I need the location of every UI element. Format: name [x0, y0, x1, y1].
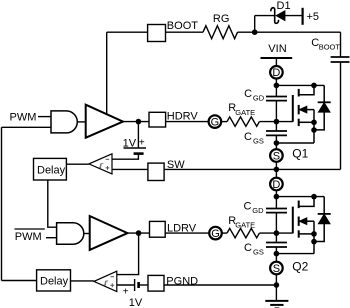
wire PWM-bar input stub: [46, 237, 57, 239]
pin circle D (Q1 drain): [270, 66, 283, 79]
wire D circle to drain node: [275, 79, 277, 85]
transistor Q1 gate bar: [292, 95, 294, 122]
pin circle G (Q2 gate): [209, 227, 222, 240]
wire comparator plus input to SW: [112, 168, 148, 170]
wire comparator plus input to battery: [117, 284, 135, 286]
body diode Q2 branch lower: [314, 224, 324, 242]
wire AND1 output to driver: [77, 121, 85, 123]
wire Delay1 to AND2: [48, 180, 57, 227]
wire Delay2 output to left rail: [2, 280, 37, 282]
node Q2 drain stub junction: [311, 194, 317, 200]
comparator (low-side) minus sign: [110, 276, 114, 278]
node Q1 source stub junction: [311, 120, 317, 126]
body diode Q1 branch upper: [323, 85, 325, 102]
wire RGATE to Q1 gate: [259, 121, 292, 123]
node Q2 drain: [274, 194, 280, 200]
diode D1 (schottky, cathode bar): [271, 8, 279, 24]
body diode Q2 branch upper: [323, 197, 325, 214]
svg-text:+: +: [123, 286, 129, 297]
svg-text:GATE: GATE: [235, 221, 255, 230]
body diode Q2 triangle: [319, 215, 330, 224]
buffer driver (low-side): [90, 216, 128, 250]
resistor RGATE (Q1): [227, 117, 259, 126]
wire Q1 gate node to CGS: [275, 122, 277, 131]
node Q1 drain stub junction: [311, 83, 317, 89]
overline for PWM-bar: [15, 228, 45, 230]
body diode Q1 cathode bar: [318, 101, 331, 103]
node Q2 source stub junction: [311, 231, 317, 237]
wire battery to comparator inverting input: [112, 154, 138, 160]
node PGND: [274, 282, 280, 288]
buffer driver (high-side): [86, 105, 123, 138]
transistor Q1 channel segments: [298, 89, 300, 97]
node bootstrap (RG / D1 / CBOOT junction): [252, 29, 258, 35]
body diode Q1 branch lower: [314, 112, 324, 130]
comparator (high-side) hysteresis glyph: [99, 164, 104, 168]
svg-text:+5: +5: [307, 11, 320, 23]
wire HDRV node to battery: [137, 122, 139, 148]
resistor RG: [203, 26, 238, 39]
wire SW rail: [164, 168, 340, 170]
svg-text:GS: GS: [253, 136, 264, 145]
wire CGS to Q1 source node: [275, 135, 277, 143]
wire CGD to Q2 gate node: [275, 213, 277, 234]
wire PGND rail: [164, 284, 276, 286]
svg-text:C: C: [244, 88, 252, 100]
capacitor CGD (Q1): [266, 96, 287, 98]
pin circle D (Q2 drain): [270, 178, 283, 191]
wire right rail upper (to CBOOT): [340, 32, 342, 57]
wire RGATE to Q2 gate: [259, 232, 292, 234]
wire Q1 drain rail: [276, 84, 324, 86]
wire left rail: [1, 127, 3, 280]
comparator (low-side) hysteresis glyph: [104, 281, 109, 285]
wire D1 anode to +5: [285, 15, 303, 17]
transistor Q2 gate bar: [292, 207, 294, 234]
wire LDRV box to gate circle: [165, 232, 209, 234]
body diode Q1 triangle: [319, 103, 330, 112]
wire battery to PGND box: [139, 284, 148, 286]
svg-text:BOOT: BOOT: [319, 42, 341, 51]
pin box BOOT: [148, 25, 166, 42]
transistor Q2 drain stub: [299, 197, 314, 207]
node HDRV (driver output): [123, 121, 149, 123]
svg-text:GD: GD: [253, 93, 265, 102]
pin box PGND: [148, 275, 164, 291]
wire Q2 drain rail: [276, 196, 324, 198]
and-gate U1 (high-side): [51, 111, 77, 133]
wire RG to bootstrap node: [238, 31, 255, 33]
node SW: [274, 167, 280, 173]
svg-text:GS: GS: [253, 247, 264, 256]
transistor Q2 body arrow: [306, 220, 315, 222]
svg-text:G: G: [211, 117, 220, 129]
svg-text:HDRV: HDRV: [167, 111, 199, 123]
node Q1 source (CGS bottom): [274, 140, 280, 146]
svg-text:PWM: PWM: [15, 231, 42, 243]
pin circle G (Q1 gate): [209, 115, 222, 128]
transistor Q1 body arrow: [306, 109, 315, 111]
capacitor CGS (Q1): [266, 130, 287, 132]
wire D circle to Q2 drain node: [275, 191, 277, 197]
node LDRV (driver output): [128, 232, 150, 234]
pin circle S (Q1 source): [275, 143, 277, 149]
svg-text:Q1: Q1: [292, 147, 308, 161]
svg-text:D1: D1: [277, 0, 291, 12]
svg-text:C: C: [244, 201, 252, 213]
pin circle S (Q2 source): [275, 254, 277, 262]
wire D1 branch riser: [254, 16, 256, 33]
node Q2 gate: [274, 230, 280, 236]
node Q1 gate: [274, 119, 280, 125]
wire comparator output to Delay2: [71, 280, 94, 282]
wire Q1 drain to CGD: [275, 85, 277, 96]
svg-text:VIN: VIN: [268, 43, 286, 55]
wire CGS to Q2 source node: [275, 247, 277, 254]
and-gate U2 (low-side): [57, 223, 84, 244]
resistor RGATE (Q2): [227, 228, 259, 237]
wire Q2 source to PGND rail: [275, 274, 277, 285]
body diode Q2 cathode bar: [318, 213, 331, 215]
wire BOOT feed horizontal (top rail left): [107, 31, 148, 33]
wire right rail lower (CBOOT to SW): [340, 62, 342, 169]
svg-text:GATE: GATE: [235, 108, 255, 117]
battery 1V (low-side) plates: [134, 279, 136, 291]
supply VIN bar: [261, 57, 293, 59]
wire CGD to Q1 gate node: [275, 101, 277, 122]
delay block 2: [37, 270, 71, 291]
transistor Q2 channel segments: [298, 201, 300, 209]
wire Q2 body-source vertical: [313, 221, 315, 253]
svg-text:GD: GD: [252, 206, 264, 215]
comparator (high-side): [89, 154, 112, 174]
svg-text:S: S: [273, 263, 280, 275]
pin box SW: [148, 163, 164, 180]
wire PWM input stub: [38, 116, 51, 118]
svg-text:PWM: PWM: [10, 112, 37, 124]
svg-text:C: C: [244, 242, 252, 254]
svg-text:D: D: [272, 67, 280, 79]
node Q1 drain: [274, 83, 280, 89]
ground: [265, 300, 288, 302]
wire VIN to D circle: [275, 58, 277, 66]
wire Q2 source rail: [276, 253, 314, 255]
wire left rail to AND1 input: [2, 126, 52, 128]
svg-text:BOOT: BOOT: [167, 20, 198, 32]
comparator (high-side) plus sign: [106, 166, 110, 170]
svg-text:Q2: Q2: [292, 259, 308, 273]
node Q2 body diode bottom junction: [311, 239, 317, 245]
wire BOOT feed vertical: [106, 32, 108, 114]
delay block 1: [34, 158, 67, 180]
wire Q1 body-source vertical: [313, 110, 315, 143]
comparator (high-side) minus sign: [106, 158, 110, 160]
transistor Q1 source stub: [299, 121, 314, 123]
wire D1 branch horizontal: [255, 15, 274, 17]
wire Q2 drain to CGD: [275, 197, 277, 209]
wire Q1 source to SW rail: [275, 162, 277, 170]
wire BOOT box to RG: [166, 31, 204, 33]
wire Q1 source rail: [276, 142, 314, 144]
pin box HDRV: [149, 112, 166, 127]
wire LDRV node to comparator inverting input: [117, 233, 139, 275]
wire PGND node to ground: [275, 285, 277, 301]
wire top rail to right corner: [255, 31, 341, 33]
diode D1 (schottky, triangle): [276, 11, 284, 20]
capacitor CGS (Q2): [266, 242, 287, 244]
svg-text:+: +: [139, 137, 145, 148]
svg-text:1V: 1V: [129, 297, 143, 308]
pin box LDRV: [150, 221, 166, 237]
node Q2 source (CGS bottom): [274, 251, 280, 257]
wire G circle to RGATE (Q2): [222, 232, 227, 234]
svg-text:D: D: [272, 179, 280, 191]
wire SW to Q2 D circle: [275, 169, 277, 177]
svg-text:G: G: [211, 228, 220, 240]
battery 1V (high-side) plates: [124, 147, 147, 149]
wire HDRV box to gate circle: [166, 121, 208, 123]
comparator (low-side) plus sign: [110, 283, 114, 287]
transistor Q2 source stub: [299, 233, 314, 235]
comparator (low-side): [94, 271, 117, 291]
supply +5 bar: [302, 8, 304, 25]
node Q1 body diode bottom junction: [311, 127, 317, 133]
svg-text:Delay: Delay: [37, 164, 66, 176]
transistor Q1 drain stub: [299, 85, 314, 94]
svg-text:S: S: [273, 150, 280, 162]
svg-text:C: C: [244, 131, 252, 143]
wire Q2 gate node to CGS: [275, 233, 277, 242]
capacitor CBOOT: [331, 56, 350, 58]
wire AND2 output to driver: [84, 233, 90, 235]
svg-text:RG: RG: [213, 13, 230, 25]
svg-text:Delay: Delay: [40, 275, 69, 287]
wire G circle to RGATE: [222, 121, 227, 123]
wire comparator output to Delay1: [66, 163, 89, 165]
capacitor CGD (Q2): [266, 208, 287, 210]
